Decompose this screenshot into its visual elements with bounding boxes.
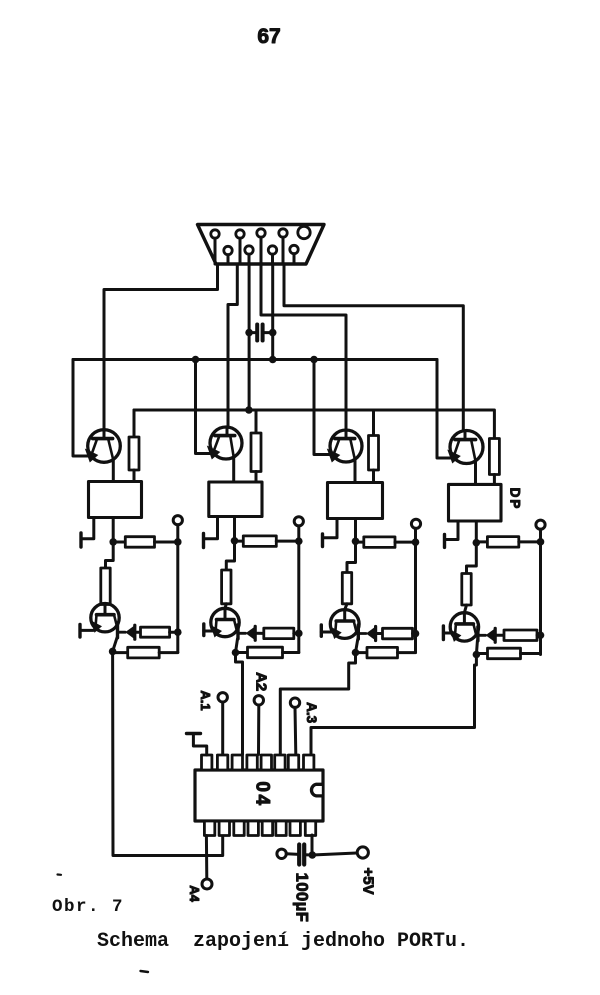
- IC U5 body (inverter 04): [195, 770, 323, 821]
- wire: node 2b to IC pin 3 (top): [236, 653, 243, 755]
- junction node 4a: [473, 539, 481, 547]
- connector J1 large pin (top right circle): [298, 226, 310, 238]
- diode D2 (cathode bar at Q4 collector): [238, 625, 255, 641]
- resistor R1b (horizontal, node 1a to output terminal): [113, 537, 178, 548]
- terminal stub with end bar (Q6 emitter side): [321, 625, 333, 636]
- output terminal circle (channel 3): [411, 519, 420, 528]
- junction: +5V node: [309, 851, 317, 859]
- wire: box 1 bottom to node 1a: [112, 518, 115, 542]
- resistor R1a (vertical, bus B to coupler box 1): [129, 410, 139, 482]
- transistor Q2 (lower, channel 1): [91, 604, 120, 633]
- IC bottom pin 8: [305, 821, 315, 836]
- junction node 3a: [352, 538, 360, 546]
- resistor R2b (horizontal, node 2a to output terminal): [235, 536, 299, 547]
- connector J1 (edge connector, trapezoid body): [198, 225, 325, 265]
- IC top pin 3: [232, 755, 242, 770]
- terminal stub with end bar at IC top pin 1: [187, 734, 207, 756]
- connector J1 pin 3 (top row circle): [257, 229, 265, 237]
- wire: +5V node to +5V terminal: [312, 853, 356, 855]
- junction: R3b at right vertical rail: [412, 538, 420, 546]
- junction node 1b: [109, 648, 117, 656]
- junction node 1a: [109, 538, 117, 546]
- resistor R4d (horizontal, diode D4 to right rail): [495, 630, 540, 641]
- wire: Q8 output down to node 4b: [476, 641, 477, 655]
- junction: C1 left lead on W3: [245, 329, 253, 337]
- resistor R3c (vertical, node 3a to Q6 base): [342, 541, 355, 609]
- junction node 4b: [473, 651, 481, 659]
- IC bottom pin 2: [219, 821, 229, 836]
- bus B (lower horizontal rail feeding collector resistors): [134, 409, 494, 412]
- coupler box U1 (channel 1): [89, 482, 142, 518]
- svg-text:A4: A4: [187, 885, 202, 902]
- transistor Q1 (upper PNP, channel 1): [85, 430, 120, 463]
- junction: R2d at right vertical rail: [295, 630, 303, 638]
- resistor R3a (vertical, bus B to coupler box 3): [369, 410, 379, 483]
- svg-text:04: 04: [251, 781, 272, 807]
- capacitor C2 (100uF) with open terminal: [277, 845, 312, 865]
- svg-text:67: 67: [257, 25, 280, 48]
- IC bottom pin 5: [262, 821, 272, 836]
- transistor Q8 (lower, channel 4): [450, 613, 479, 642]
- output terminal circle (channel 2): [294, 517, 303, 526]
- wire: right vertical rail (channel 2): [297, 526, 300, 653]
- capacitor C1 (between wires W3 and W5): [249, 325, 273, 341]
- terminal stub with end bar (Q8 emitter side): [443, 626, 452, 640]
- stray mark above caption: [58, 873, 62, 875]
- wire: Q1 collector to coupler box 1: [112, 460, 115, 482]
- junction: C1 right lead on W5: [269, 329, 277, 337]
- terminal stub with end bar (box 4 bottom left): [445, 521, 459, 547]
- diode D3 (cathode bar at Q6 collector): [358, 625, 375, 641]
- connector J1 pin 6 (bottom row circle): [245, 246, 253, 254]
- transistor Q6 (lower, channel 3): [330, 610, 359, 639]
- stray mark under caption: [141, 971, 149, 972]
- diode D4 (cathode bar at Q8 collector): [478, 627, 495, 643]
- wire: right vertical rail (channel 3): [414, 528, 417, 652]
- junction: W5 on bus A: [269, 356, 277, 364]
- connector J1 pin 8 (bottom row circle): [290, 245, 298, 253]
- connector J1 pin 2 (top row circle): [236, 230, 244, 238]
- junction node 2a: [231, 537, 239, 545]
- connector J1 pin 5 (bottom row circle): [224, 246, 232, 254]
- terminal stub with end bar (box 1 bottom left): [81, 518, 94, 548]
- channel 3 driver circuit: [321, 410, 420, 658]
- wire W5: connector pin down to bus A (through capacitor node): [271, 264, 274, 360]
- junction: R4b at right vertical rail: [537, 538, 545, 546]
- wire W2: connector pin to Q3 base (jog left): [228, 264, 237, 428]
- wire: IC bottom pin 7 down to +5V node: [311, 835, 314, 855]
- wire W3: connector pin down to bus B (through capacitor node): [248, 264, 251, 410]
- bus A (upper horizontal supply rail): [73, 358, 437, 361]
- channel 2 driver circuit: [204, 410, 304, 658]
- resistor R4c (vertical, node 4a to Q8 base): [462, 543, 477, 613]
- IC top pin 2: [217, 755, 227, 770]
- svg-text:DP: DP: [508, 488, 523, 511]
- terminal A.3 (circle) with wire to IC top pin 6: [290, 698, 299, 755]
- wire: Q2 output down to node 1b: [113, 638, 117, 652]
- IC top pin 6: [275, 755, 285, 770]
- transistor Q5 (upper PNP, channel 3): [327, 430, 362, 463]
- wire: right vertical rail (channel 1): [176, 525, 179, 653]
- IC top pin 5: [261, 755, 271, 770]
- resistor R2e (horizontal, node 2b to right rail): [236, 647, 299, 658]
- wire: node 1b down the left side to IC pin 2 (bottom): [113, 651, 223, 855]
- coupler box U3 (channel 3): [328, 483, 383, 519]
- wire W4: connector pin to Q5 base: [261, 264, 346, 431]
- terminal stub with end bar (Q4 emitter side): [204, 624, 214, 636]
- IC top pin 1: [202, 755, 212, 770]
- wire: bus A left end down to Q1 emitter: [73, 360, 90, 457]
- resistor R4b (horizontal, node 4a to output terminal): [476, 537, 540, 548]
- svg-text:A.1: A.1: [198, 690, 213, 710]
- wire: node 3b to IC pin 5 (top): [280, 653, 355, 755]
- resistor R4e (horizontal, node 4b to right rail): [476, 648, 540, 659]
- channel 4 driver circuit: [443, 410, 545, 659]
- transistor Q3 (upper PNP, channel 2): [207, 427, 242, 460]
- svg-text:Obr. 7: Obr. 7: [52, 897, 124, 917]
- wire: Q4 output down to node 2b: [236, 639, 238, 653]
- transistor Q4 (lower, channel 2): [211, 608, 240, 637]
- junction: R3d at right vertical rail: [412, 630, 420, 638]
- wire W6: connector pin to Q7 base: [284, 264, 463, 431]
- svg-text:A.3: A.3: [304, 702, 319, 724]
- wire: box 2 bottom to node 2a: [233, 517, 236, 541]
- junction: R2b at right vertical rail: [295, 537, 303, 545]
- connector J1 pin 4 (top row circle): [279, 229, 287, 237]
- output terminal circle (channel 4): [536, 520, 545, 529]
- resistor R2d (horizontal, diode D2 to right rail): [255, 628, 299, 639]
- resistor R1c (vertical, node 1a to Q2 base): [101, 542, 113, 605]
- coupler box U4 (channel 4): [449, 484, 502, 521]
- resistor R2a (vertical, bus B to coupler box 2): [251, 410, 261, 482]
- terminal A.1 (circle) with wire to IC top pin 2: [218, 693, 227, 755]
- diode D1 (cathode bar at Q2 collector): [118, 624, 135, 640]
- IC bottom pin 7: [290, 821, 300, 836]
- resistor R3b (horizontal, node 3a to output terminal): [356, 537, 416, 548]
- terminal +5V (circle): [357, 847, 368, 858]
- resistor R2c (vertical, node 2a to Q4 base): [222, 541, 235, 609]
- IC U5 pin-1 notch (right edge): [311, 784, 321, 796]
- wire: Q3 collector to coupler box 2: [232, 457, 235, 482]
- junction node 2b: [232, 649, 240, 657]
- connector J1 pin 7 (bottom row circle): [268, 246, 276, 254]
- IC top pin 7: [288, 755, 298, 770]
- svg-text:Schema zapojení jednoho PORTu: Schema zapojení jednoho PORTu.: [97, 930, 469, 953]
- terminal stub with end bar (box 3 bottom left): [323, 519, 338, 547]
- svg-text:A2: A2: [253, 672, 270, 691]
- connector pin stems inside body: [214, 238, 217, 264]
- wire: bus A tap down to Q3 emitter: [196, 360, 213, 454]
- resistor R3e (horizontal, node 3b to right rail): [356, 647, 416, 658]
- terminal A2 (circle) with wire to IC top pin 4: [254, 696, 263, 755]
- terminal stub with end bar (box 2 bottom left): [204, 517, 218, 548]
- wire: node 4b to IC pin 7 (top): [311, 655, 476, 755]
- IC bottom pin 3: [234, 821, 244, 836]
- resistor R1d (horizontal, diode D1 to right rail): [135, 627, 178, 637]
- svg-text:+5V: +5V: [360, 867, 377, 894]
- IC top pin 8: [304, 755, 314, 770]
- resistor R1e (horizontal, node 1b to right rail): [113, 647, 178, 658]
- junction: R1d at right vertical rail: [174, 628, 182, 636]
- terminal A4 (circle) with wire from IC bottom pin 1: [202, 836, 212, 890]
- wire W1: connector pin to Q1 base (via left step): [104, 264, 218, 430]
- wire: bus A right end down to Q7 emitter: [437, 360, 453, 459]
- svg-text:100µF: 100µF: [292, 873, 310, 923]
- coupler box U2 (channel 2): [209, 482, 262, 517]
- junction: bus A tap to Q5 emitter: [310, 356, 318, 364]
- junction: bus A tap to Q3 emitter: [192, 356, 200, 364]
- connector J1 pin 1 (top row circle): [211, 230, 219, 238]
- resistor R3d (horizontal, diode D3 to right rail): [376, 628, 416, 639]
- output terminal circle (channel 1): [173, 516, 182, 525]
- junction: R1b at right vertical rail: [174, 538, 182, 546]
- wire: bus A tap down to Q5 emitter: [314, 360, 332, 455]
- IC bottom pin 1: [204, 821, 214, 836]
- transistor Q7 (upper PNP, channel 4): [447, 431, 483, 464]
- wire: box 4 bottom to node 4a: [475, 521, 478, 543]
- resistor R4a (vertical, bus B to coupler box 4): [489, 410, 499, 484]
- junction: R4d at right vertical rail: [537, 631, 545, 639]
- wire: Q5 collector to coupler box 3: [354, 460, 357, 483]
- wire: right vertical rail (channel 4): [539, 529, 542, 654]
- wire: Q7 collector to coupler box 4: [474, 461, 477, 484]
- IC bottom pin 6: [276, 821, 286, 836]
- junction: W3 on bus B: [245, 406, 253, 414]
- channel 1 driver circuit: [80, 410, 182, 658]
- wire: box 3 bottom to node 3a: [354, 519, 357, 542]
- IC top pin 4: [247, 755, 257, 770]
- wire: Q6 output down to node 3b: [356, 639, 358, 653]
- terminal stub with end bar (Q2 emitter side): [80, 625, 93, 638]
- junction node 3b: [352, 649, 360, 657]
- IC bottom pin 4: [248, 821, 258, 836]
